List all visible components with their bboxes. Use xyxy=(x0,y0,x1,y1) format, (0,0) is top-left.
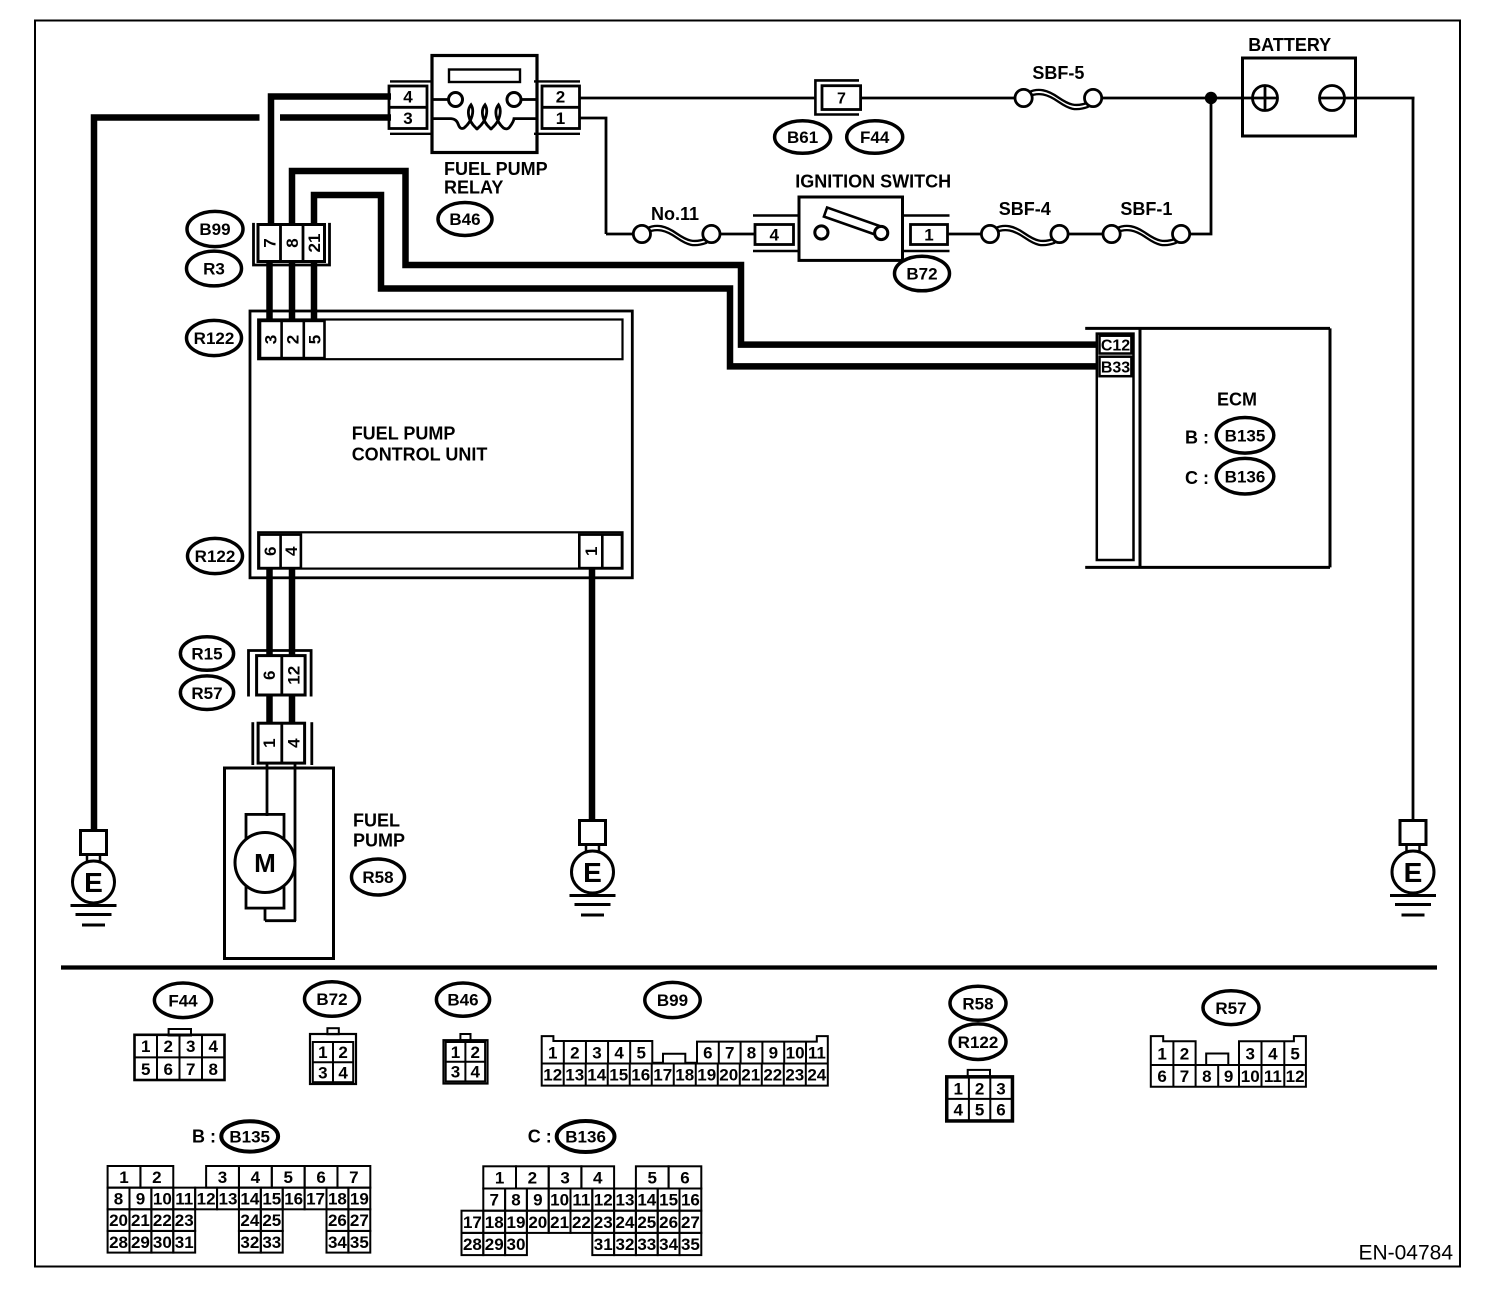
svg-text:1: 1 xyxy=(924,226,933,245)
svg-text:B72: B72 xyxy=(906,265,937,284)
svg-text:23: 23 xyxy=(175,1211,194,1230)
svg-text:19: 19 xyxy=(697,1066,716,1085)
svg-text:4: 4 xyxy=(614,1043,624,1062)
svg-text:16: 16 xyxy=(631,1066,650,1085)
svg-text:4: 4 xyxy=(284,738,303,748)
svg-text:10: 10 xyxy=(786,1044,805,1063)
svg-text:R58: R58 xyxy=(962,994,993,1013)
svg-text:R57: R57 xyxy=(191,684,222,703)
svg-text:11: 11 xyxy=(1264,1067,1282,1086)
svg-text:6: 6 xyxy=(680,1169,689,1188)
svg-text:B72: B72 xyxy=(316,990,347,1009)
svg-text:27: 27 xyxy=(350,1211,369,1230)
svg-text:6: 6 xyxy=(261,547,280,556)
svg-text:24: 24 xyxy=(240,1211,259,1230)
svg-text:6: 6 xyxy=(163,1060,172,1079)
svg-text:18: 18 xyxy=(675,1066,694,1085)
svg-text:B46: B46 xyxy=(447,991,478,1010)
svg-text:1: 1 xyxy=(1157,1044,1166,1063)
svg-text:9: 9 xyxy=(533,1191,542,1210)
svg-text:R57: R57 xyxy=(1215,999,1246,1018)
svg-text:7: 7 xyxy=(186,1060,195,1079)
svg-text:B :: B : xyxy=(1185,427,1209,447)
svg-text:22: 22 xyxy=(763,1066,782,1085)
svg-text:2: 2 xyxy=(338,1043,347,1062)
svg-text:SBF-1: SBF-1 xyxy=(1120,199,1172,219)
svg-text:5: 5 xyxy=(141,1060,150,1079)
svg-text:23: 23 xyxy=(594,1213,613,1232)
svg-text:4: 4 xyxy=(1268,1044,1278,1063)
svg-text:5: 5 xyxy=(648,1169,657,1188)
svg-text:12: 12 xyxy=(594,1191,613,1210)
svg-text:C :: C : xyxy=(528,1127,552,1147)
svg-text:No.11: No.11 xyxy=(651,204,699,224)
svg-text:R58: R58 xyxy=(362,868,393,887)
svg-text:7: 7 xyxy=(725,1044,734,1063)
svg-text:B135: B135 xyxy=(229,1128,270,1147)
svg-text:6: 6 xyxy=(996,1101,1005,1120)
svg-text:B :: B : xyxy=(192,1127,216,1147)
svg-text:5: 5 xyxy=(637,1043,646,1062)
svg-text:CONTROL UNIT: CONTROL UNIT xyxy=(352,445,488,465)
svg-text:20: 20 xyxy=(719,1066,738,1085)
svg-text:13: 13 xyxy=(565,1066,584,1085)
svg-text:21: 21 xyxy=(131,1211,150,1230)
svg-text:10: 10 xyxy=(550,1191,569,1210)
svg-text:15: 15 xyxy=(609,1066,628,1085)
svg-text:3: 3 xyxy=(262,335,281,344)
svg-text:2: 2 xyxy=(556,88,565,107)
svg-text:4: 4 xyxy=(282,546,301,556)
svg-text:2: 2 xyxy=(1180,1044,1189,1063)
svg-text:2: 2 xyxy=(570,1043,579,1062)
svg-text:21: 21 xyxy=(550,1213,569,1232)
svg-text:19: 19 xyxy=(350,1190,369,1209)
svg-text:3: 3 xyxy=(318,1063,327,1082)
svg-text:18: 18 xyxy=(328,1190,347,1209)
svg-text:25: 25 xyxy=(262,1211,281,1230)
svg-text:1: 1 xyxy=(953,1079,962,1098)
svg-text:3: 3 xyxy=(592,1043,601,1062)
svg-text:2: 2 xyxy=(528,1169,537,1188)
svg-text:12: 12 xyxy=(1286,1067,1305,1086)
svg-text:F44: F44 xyxy=(168,991,198,1010)
svg-text:R122: R122 xyxy=(194,329,235,348)
svg-text:8: 8 xyxy=(747,1044,756,1063)
svg-text:F44: F44 xyxy=(860,128,890,147)
svg-text:22: 22 xyxy=(153,1211,172,1230)
svg-text:30: 30 xyxy=(153,1233,172,1252)
svg-text:8: 8 xyxy=(511,1191,520,1210)
svg-text:6: 6 xyxy=(1157,1067,1166,1086)
svg-text:18: 18 xyxy=(485,1213,504,1232)
svg-text:R122: R122 xyxy=(958,1033,999,1052)
svg-text:1: 1 xyxy=(260,738,279,747)
svg-text:B33: B33 xyxy=(1101,359,1130,376)
svg-text:B136: B136 xyxy=(1225,467,1266,486)
svg-text:5: 5 xyxy=(306,335,325,344)
svg-text:21: 21 xyxy=(305,234,324,253)
svg-text:16: 16 xyxy=(681,1191,700,1210)
svg-text:17: 17 xyxy=(306,1190,325,1209)
svg-text:E: E xyxy=(583,857,602,888)
svg-text:6: 6 xyxy=(260,671,279,680)
svg-text:2: 2 xyxy=(163,1037,172,1056)
svg-text:1: 1 xyxy=(582,547,601,556)
svg-text:3: 3 xyxy=(560,1169,569,1188)
svg-text:19: 19 xyxy=(507,1213,526,1232)
svg-text:ECM: ECM xyxy=(1217,390,1257,410)
svg-text:33: 33 xyxy=(262,1233,281,1252)
svg-text:7: 7 xyxy=(837,90,846,107)
svg-text:26: 26 xyxy=(328,1211,347,1230)
svg-text:24: 24 xyxy=(807,1066,826,1085)
svg-text:34: 34 xyxy=(659,1235,678,1254)
svg-text:B46: B46 xyxy=(449,210,480,229)
svg-text:7: 7 xyxy=(261,238,280,247)
svg-text:B135: B135 xyxy=(1225,426,1266,445)
svg-text:4: 4 xyxy=(953,1101,963,1120)
svg-text:4: 4 xyxy=(593,1169,603,1188)
svg-text:14: 14 xyxy=(587,1066,606,1085)
svg-text:B61: B61 xyxy=(787,128,818,147)
svg-text:3: 3 xyxy=(218,1168,227,1187)
svg-text:28: 28 xyxy=(109,1233,128,1252)
svg-text:32: 32 xyxy=(616,1235,635,1254)
svg-text:B136: B136 xyxy=(565,1128,606,1147)
svg-text:10: 10 xyxy=(1241,1067,1260,1086)
svg-text:1: 1 xyxy=(548,1043,557,1062)
svg-text:26: 26 xyxy=(659,1213,678,1232)
svg-text:17: 17 xyxy=(463,1213,482,1232)
svg-text:PUMP: PUMP xyxy=(353,831,405,851)
svg-text:R122: R122 xyxy=(195,547,236,566)
svg-text:6: 6 xyxy=(316,1168,325,1187)
svg-text:12: 12 xyxy=(284,666,303,685)
svg-text:4: 4 xyxy=(470,1063,480,1082)
svg-text:5: 5 xyxy=(1290,1044,1299,1063)
svg-text:9: 9 xyxy=(136,1190,145,1209)
svg-text:4: 4 xyxy=(208,1037,218,1056)
svg-text:25: 25 xyxy=(637,1213,656,1232)
svg-text:2: 2 xyxy=(284,335,303,344)
svg-text:2: 2 xyxy=(975,1079,984,1098)
svg-text:20: 20 xyxy=(109,1211,128,1230)
svg-text:8: 8 xyxy=(1202,1067,1211,1086)
svg-text:C :: C : xyxy=(1185,468,1209,488)
svg-text:22: 22 xyxy=(572,1213,591,1232)
svg-text:17: 17 xyxy=(653,1066,672,1085)
svg-text:8: 8 xyxy=(283,238,302,247)
svg-text:31: 31 xyxy=(175,1233,194,1252)
svg-text:15: 15 xyxy=(262,1190,281,1209)
svg-text:1: 1 xyxy=(141,1037,150,1056)
svg-text:2: 2 xyxy=(152,1168,161,1187)
svg-text:8: 8 xyxy=(208,1060,217,1079)
svg-text:3: 3 xyxy=(186,1037,195,1056)
svg-text:6: 6 xyxy=(703,1044,712,1063)
svg-text:15: 15 xyxy=(659,1191,678,1210)
svg-text:RELAY: RELAY xyxy=(444,178,503,198)
svg-text:29: 29 xyxy=(131,1233,150,1252)
svg-text:10: 10 xyxy=(153,1190,172,1209)
svg-text:4: 4 xyxy=(403,88,413,107)
svg-text:20: 20 xyxy=(528,1213,547,1232)
svg-text:23: 23 xyxy=(785,1066,804,1085)
svg-text:4: 4 xyxy=(338,1063,348,1082)
svg-text:35: 35 xyxy=(681,1235,700,1254)
svg-text:1: 1 xyxy=(318,1043,327,1062)
svg-text:1: 1 xyxy=(495,1169,504,1188)
svg-text:FUEL PUMP: FUEL PUMP xyxy=(352,424,456,444)
svg-text:SBF-4: SBF-4 xyxy=(999,199,1051,219)
svg-text:1: 1 xyxy=(556,109,565,128)
svg-text:33: 33 xyxy=(637,1235,656,1254)
svg-text:3: 3 xyxy=(1245,1044,1254,1063)
svg-text:FUEL PUMP: FUEL PUMP xyxy=(444,159,548,179)
svg-text:B99: B99 xyxy=(657,991,688,1010)
svg-text:12: 12 xyxy=(543,1066,562,1085)
svg-text:7: 7 xyxy=(349,1168,358,1187)
svg-text:3: 3 xyxy=(996,1079,1005,1098)
svg-text:12: 12 xyxy=(197,1190,216,1209)
svg-text:E: E xyxy=(1404,857,1423,888)
svg-text:30: 30 xyxy=(507,1235,526,1254)
svg-text:3: 3 xyxy=(451,1063,460,1082)
svg-text:13: 13 xyxy=(616,1191,635,1210)
svg-text:11: 11 xyxy=(175,1190,193,1209)
svg-text:11: 11 xyxy=(808,1044,826,1063)
svg-text:27: 27 xyxy=(681,1213,700,1232)
svg-text:R15: R15 xyxy=(191,645,222,664)
svg-text:29: 29 xyxy=(485,1235,504,1254)
svg-text:3: 3 xyxy=(403,109,412,128)
svg-text:14: 14 xyxy=(240,1190,259,1209)
svg-text:34: 34 xyxy=(328,1233,347,1252)
svg-text:4: 4 xyxy=(251,1168,261,1187)
svg-text:21: 21 xyxy=(741,1066,760,1085)
svg-text:2: 2 xyxy=(470,1043,479,1062)
svg-text:24: 24 xyxy=(616,1213,635,1232)
svg-text:R3: R3 xyxy=(203,260,225,279)
svg-text:32: 32 xyxy=(240,1233,259,1252)
svg-text:13: 13 xyxy=(219,1190,238,1209)
svg-text:1: 1 xyxy=(451,1043,460,1062)
svg-text:BATTERY: BATTERY xyxy=(1248,35,1331,55)
svg-text:IGNITION SWITCH: IGNITION SWITCH xyxy=(795,172,951,192)
svg-text:E: E xyxy=(84,867,103,898)
svg-text:9: 9 xyxy=(769,1044,778,1063)
svg-text:31: 31 xyxy=(594,1235,613,1254)
svg-text:14: 14 xyxy=(637,1191,656,1210)
svg-text:11: 11 xyxy=(572,1191,590,1210)
svg-text:C12: C12 xyxy=(1101,337,1130,354)
svg-text:7: 7 xyxy=(1180,1067,1189,1086)
svg-text:1: 1 xyxy=(119,1168,128,1187)
svg-text:4: 4 xyxy=(769,226,779,245)
svg-text:5: 5 xyxy=(283,1168,292,1187)
svg-text:16: 16 xyxy=(284,1190,303,1209)
svg-text:SBF-5: SBF-5 xyxy=(1032,63,1084,83)
svg-text:EN-04784: EN-04784 xyxy=(1358,1242,1453,1265)
svg-text:28: 28 xyxy=(463,1235,482,1254)
svg-text:35: 35 xyxy=(350,1233,369,1252)
svg-text:5: 5 xyxy=(975,1101,984,1120)
svg-text:7: 7 xyxy=(489,1191,498,1210)
svg-text:B99: B99 xyxy=(199,220,230,239)
svg-text:8: 8 xyxy=(114,1190,123,1209)
svg-text:M: M xyxy=(254,848,276,878)
svg-text:FUEL: FUEL xyxy=(353,811,400,831)
svg-text:9: 9 xyxy=(1224,1067,1233,1086)
